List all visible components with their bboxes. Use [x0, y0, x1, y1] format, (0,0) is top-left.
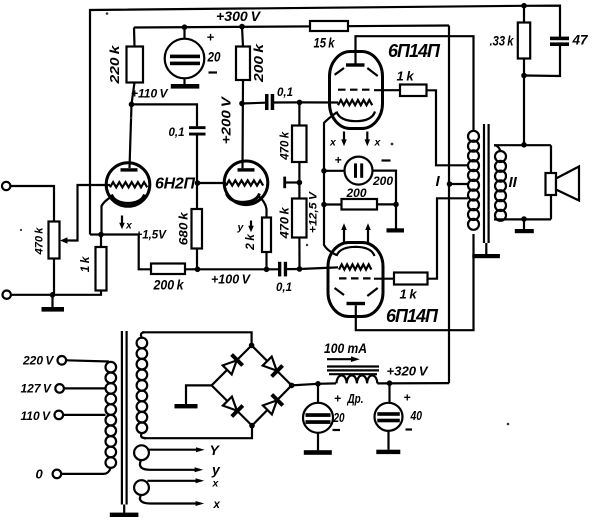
svg-text:470 k: 470 k — [280, 131, 292, 161]
svg-text:y: y — [237, 222, 245, 234]
svg-text:+12,5 V: +12,5 V — [308, 190, 320, 233]
svg-text:200: 200 — [346, 186, 367, 200]
svg-text:6Н2П: 6Н2П — [155, 176, 195, 193]
svg-text:0,1: 0,1 — [169, 127, 185, 139]
svg-text:20: 20 — [207, 49, 221, 65]
svg-text:680 k: 680 k — [177, 211, 191, 245]
svg-text:220 V: 220 V — [22, 353, 54, 367]
svg-text:40: 40 — [410, 408, 423, 423]
svg-text:6П14П: 6П14П — [388, 41, 441, 61]
svg-text:127 V: 127 V — [21, 381, 52, 395]
svg-text:200 k: 200 k — [252, 43, 266, 84]
svg-text:0: 0 — [36, 467, 44, 482]
svg-text:x: x — [125, 220, 133, 232]
svg-text:20: 20 — [333, 410, 345, 425]
svg-text:15 k: 15 k — [314, 36, 336, 51]
svg-text:+: + — [404, 391, 411, 405]
svg-text:0,1: 0,1 — [277, 87, 293, 99]
svg-text:x: x — [329, 137, 337, 149]
svg-text:1 k: 1 k — [400, 287, 418, 302]
svg-text:100 mA: 100 mA — [324, 341, 367, 356]
svg-text:2 k: 2 k — [243, 233, 257, 251]
svg-text:+1,5V: +1,5V — [136, 230, 168, 242]
svg-text:+110 V: +110 V — [131, 87, 169, 101]
svg-text:47: 47 — [572, 33, 590, 48]
svg-text:+: + — [334, 392, 341, 406]
svg-text:+: + — [207, 30, 215, 45]
svg-text:6П14П: 6П14П — [386, 306, 439, 326]
svg-text:x: x — [212, 478, 220, 490]
svg-text:110 V: 110 V — [21, 409, 52, 423]
svg-text:200 k: 200 k — [153, 278, 185, 293]
svg-text:+320 V: +320 V — [387, 364, 429, 379]
svg-text:+300 V: +300 V — [216, 9, 261, 24]
svg-text:Др.: Др. — [347, 392, 364, 406]
svg-text:+100 V: +100 V — [211, 273, 252, 287]
svg-text:200: 200 — [372, 174, 393, 188]
svg-text:470 k: 470 k — [280, 207, 292, 240]
svg-text:x: x — [213, 499, 221, 511]
svg-text:.33 k: .33 k — [490, 34, 515, 49]
svg-text:1 k: 1 k — [397, 69, 415, 84]
svg-text:0,1: 0,1 — [276, 282, 292, 294]
svg-text:y: y — [211, 462, 221, 478]
svg-text:470 k: 470 k — [34, 227, 46, 256]
svg-text:x: x — [374, 137, 382, 149]
svg-text:+200 V: +200 V — [220, 95, 234, 144]
svg-text:1 k: 1 k — [78, 255, 92, 272]
svg-text:II: II — [509, 174, 518, 191]
svg-text:+: + — [335, 153, 342, 167]
svg-text:220 k: 220 k — [108, 44, 122, 85]
